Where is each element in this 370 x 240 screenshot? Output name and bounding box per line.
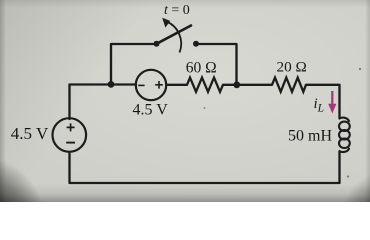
switch pivot dot bbox=[154, 41, 160, 47]
wire from inductor bottom to bottom-right corner and along bottom to left bbox=[70, 151, 340, 183]
node junction dot left (node a) bbox=[108, 81, 115, 88]
wire left source bottom lead bbox=[68, 152, 70, 183]
inductor L1 coil bbox=[339, 118, 350, 152]
switch right contact dot bbox=[193, 41, 199, 47]
voltage source V2 4.5 V (middle) circle bbox=[136, 70, 166, 100]
V1 minus sign bbox=[66, 142, 75, 144]
wire from 20 ohm resistor to top of inductor bbox=[306, 85, 340, 119]
svg-text:20 Ω: 20 Ω bbox=[277, 58, 307, 75]
switch opening arrow arc bbox=[167, 22, 182, 53]
svg-text:4.5 V: 4.5 V bbox=[11, 124, 49, 143]
resistor R1 60 ohm zigzag bbox=[187, 78, 223, 92]
current arrow iL (down) bbox=[331, 91, 333, 106]
V2 plus sign bbox=[155, 81, 163, 89]
wire middle-left: corner above left source to middle source bbox=[70, 85, 137, 120]
switch arrow head bbox=[162, 18, 170, 28]
svg-text:t = 0: t = 0 bbox=[164, 3, 190, 18]
svg-text:4.5 V: 4.5 V bbox=[133, 102, 169, 119]
voltage source V1 4.5 V (left) circle bbox=[53, 118, 87, 152]
node junction dot right (node b) bbox=[233, 81, 240, 88]
resistor R2 20 ohm zigzag bbox=[272, 78, 306, 92]
svg-text:50 mH: 50 mH bbox=[288, 128, 332, 145]
svg-text:60 Ω: 60 Ω bbox=[186, 59, 217, 76]
V1 plus sign bbox=[67, 123, 75, 131]
wire between 60 ohm resistor and 20 ohm resistor bbox=[223, 84, 272, 86]
wire from switch right contact to top-right corner, down to right junction bbox=[196, 44, 237, 85]
switch blade (opening) bbox=[157, 26, 192, 44]
svg-text:iL: iL bbox=[314, 96, 325, 115]
V2 minus sign bbox=[138, 84, 144, 86]
wire between middle source and 60 ohm resistor bbox=[167, 84, 188, 86]
wire top-left: junction up and across to switch pivot bbox=[111, 44, 154, 85]
